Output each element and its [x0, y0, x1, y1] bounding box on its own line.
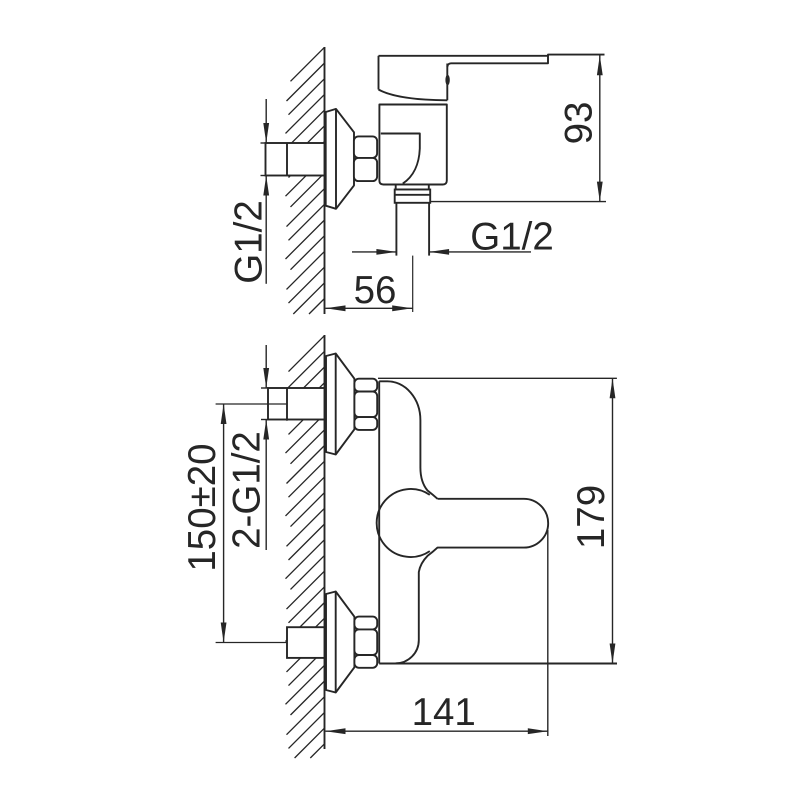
dimension 150±20: line: [223, 404, 225, 643]
outlet neck: [396, 185, 429, 190]
wall hatching (front view): [289, 336, 325, 372]
handle lever underside: [447, 55, 548, 67]
svg-text:G1/2: G1/2: [470, 216, 553, 259]
handle lever (front view): [396, 499, 549, 664]
outlet pipe centerline: [412, 256, 414, 312]
svg-text:56: 56: [354, 269, 397, 312]
extension lines for 2-G1/2: [261, 387, 268, 389]
dimension 56: line: [326, 307, 413, 309]
lower hex nut (front view): [354, 617, 377, 630]
lower supply stub (front view): [287, 627, 325, 658]
escutcheon plate edge line (cy=642.0): [335, 592, 337, 693]
wall surface line (front view): [324, 335, 326, 749]
wall escutcheon flange (front view, cy=404.0): [326, 354, 354, 455]
dimension 141: line: [326, 730, 548, 732]
handle cap right edge: [446, 64, 448, 101]
dimension 93: line: [599, 55, 601, 201]
svg-text:G1/2: G1/2: [228, 200, 271, 283]
wall escutcheon flange (front view, cy=642.0): [326, 592, 354, 693]
dimension 2-G1/2: leader below: [265, 420, 267, 551]
body left edge (front view): [378, 381, 380, 663]
body top shoulder (front view): [379, 381, 437, 499]
dimension 179: top extension line: [378, 377, 617, 379]
svg-text:93: 93: [558, 102, 601, 145]
extension lines for G1/2 wall connection: [261, 142, 267, 144]
upper supply stub (front view): [268, 388, 325, 420]
upper stub coupling line: [286, 388, 288, 420]
hex wall nut (side view): [354, 136, 377, 158]
wall surface line (side view): [324, 47, 326, 314]
dimension G1/2 wall stub: leader above: [265, 99, 267, 143]
handle boss circle (front view): [377, 489, 430, 557]
outlet pipe left edge: [395, 203, 397, 256]
handle lever top line: [379, 55, 605, 56]
collar thread line: [395, 194, 431, 196]
escutcheon plate edge line (cy=404.0): [335, 354, 337, 455]
upper hex nut (front view): [354, 379, 377, 392]
dimension G1/2 outlet: right arrow and leader: [429, 251, 531, 253]
dimension G1/2 wall stub: leader below: [265, 176, 267, 284]
body bottom edge + 179 extension line: [379, 663, 617, 665]
handle cap left edge: [378, 56, 380, 90]
wall escutcheon flange (side view): [326, 109, 354, 209]
dimension G1/2 outlet: left arrow: [352, 251, 396, 253]
outlet collar: [395, 190, 431, 203]
spout inner contour (side view): [381, 134, 420, 184]
handle cap bottom curve: [379, 90, 448, 101]
escutcheon plate edge line: [335, 109, 337, 209]
svg-text:150±20: 150±20: [181, 443, 224, 571]
mixer valve body (side view): [379, 105, 446, 185]
dimension 2-G1/2: leader above: [265, 345, 267, 388]
wall hatching (side view): [291, 47, 325, 81]
svg-text:2-G1/2: 2-G1/2: [226, 431, 269, 549]
upper stub centerline: [216, 403, 287, 405]
dimension 179: line: [612, 378, 614, 663]
dimension 93: bottom extension line: [430, 201, 606, 203]
dimension 141: right extension line: [547, 530, 549, 736]
lower stub centerline: [216, 642, 287, 644]
svg-text:141: 141: [412, 691, 476, 734]
handle pivot pin: [445, 75, 449, 86]
svg-text:179: 179: [570, 485, 613, 549]
stub coupling joint line: [286, 143, 288, 176]
supply pipe stub in wall (side view): [266, 143, 325, 176]
outlet pipe right edge: [428, 203, 430, 256]
